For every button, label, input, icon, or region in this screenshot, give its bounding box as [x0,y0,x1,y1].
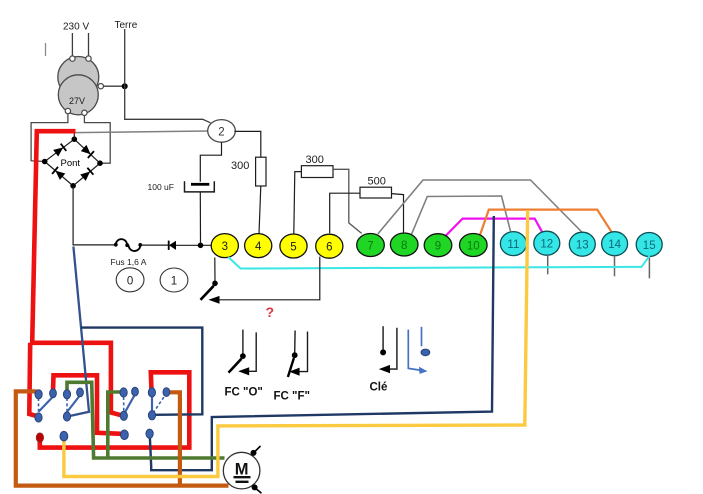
wire 230V lead right [88,33,90,56]
svg-text:6: 6 [326,242,332,254]
terminal 10 [460,234,488,257]
wire FC O right with arrow [240,332,256,371]
terminal 6 [316,234,343,258]
svg-text:?: ? [266,304,275,320]
svg-text:9: 9 [435,241,441,253]
switch FC F arm [288,358,294,377]
terminal 1 [160,268,188,292]
wire navy loop A to K4 common [81,328,202,415]
svg-text:11: 11 [507,239,519,251]
contact K2 arm [67,394,81,412]
terminal 3 [211,234,238,258]
wire green K2a to motor [67,382,225,458]
bridge Pont diamond [45,139,100,186]
wire navy DC- diagonal [69,247,90,417]
arrowhead selector [209,296,220,304]
stray mark [45,43,47,56]
node K4 bottom [148,411,155,420]
node K1 top-left [35,390,42,399]
diode D1 [168,241,170,250]
contact K4 dashed diagonal [153,394,166,413]
svg-text:10: 10 [467,241,480,253]
wire Cle blue stub [421,327,423,347]
wire capacitor to junction [199,192,201,244]
terminal right [98,84,103,89]
svg-text:100 uF: 100 uF [148,182,174,192]
node bridge left [42,159,48,165]
switch FC O left line [242,330,244,354]
transformer T1 secondary [58,75,98,115]
terminal top-left [70,56,75,61]
contact K1 dashed [38,398,40,413]
resistor R1 300 vertical [256,157,266,186]
node K4 top-right [163,388,170,397]
diode bridge top-right [81,145,94,158]
svg-text:500: 500 [368,176,386,188]
wire secondary to Terre [104,85,125,87]
terminal 0 [116,268,144,292]
arrowhead Cle blue [419,367,428,374]
terminal 9 [424,234,452,257]
contact K3 dashed [123,397,125,413]
wire red branch to contact K1a [29,343,37,416]
wire fuse to diode [140,244,168,246]
svg-text:1: 1 [171,276,177,288]
svg-text:FC "O": FC "O" [225,387,263,399]
svg-text:FC "F": FC "F" [274,391,310,403]
contact K3 arm [124,394,136,415]
wire coil2 to R1 [234,131,260,157]
wire R3 right to terminal 8 [392,194,404,233]
wire 230V lead left [71,33,73,56]
node Cle contact [380,349,386,355]
terminal bottom-left [65,108,70,113]
svg-text:Fus 1,6 A: Fus 1,6 A [111,257,147,267]
relay coil 2 [208,120,236,143]
wire navy loop B to top right [150,216,494,470]
node Terre junction [122,83,128,89]
node bridge right [97,160,103,166]
wire green K3a branch [108,392,122,457]
wire bridge top to relay coil 2 [75,131,208,133]
wire red K1a-NO to K3 common [53,375,122,434]
svg-text:300: 300 [231,160,249,172]
motor terminal upper [251,450,257,456]
svg-text:5: 5 [290,242,296,254]
wire orange left loop to motor [16,391,229,485]
diode bridge bottom-right [80,168,93,181]
wire Terre down and right to relay coil 2 [125,29,211,123]
terminal 13 [569,232,595,256]
contact K1 arm [39,395,55,412]
node K3 top-right [132,387,139,396]
terminal 12 [534,231,560,255]
arrowhead Cle [379,365,390,373]
node K1 bottom [35,413,42,422]
wire yellow K2 to top right [64,210,528,477]
terminal 7 [357,234,385,257]
svg-text:Clé: Clé [370,382,388,394]
node aux3 [121,430,129,440]
node Cle blue contact [421,349,430,356]
contact K2 dashed [66,398,68,412]
wire gray 7 to 13 [378,180,583,234]
switch arm [201,286,214,300]
terminal 5 [280,234,307,258]
wire R2 left to terminal 5 [294,172,302,235]
svg-text:4: 4 [255,241,262,253]
svg-text:3: 3 [222,241,228,253]
node K2 top-left [63,390,70,399]
arrowhead FC O [238,367,249,375]
switch FC F left line [294,331,296,354]
wire stub below 15 [648,258,650,279]
wire Cle right with arrow [382,328,397,369]
terminal 15 [636,233,662,257]
contact K4 solid vertical [151,394,153,414]
svg-text:M: M [235,461,249,479]
node K3 bottom [120,411,127,420]
svg-text:Pont: Pont [61,158,81,169]
terminal 14 [602,232,628,256]
svg-text:300: 300 [306,154,324,166]
node aux2 [60,431,68,441]
terminal 11 [500,232,526,256]
wire bridge bottom to fuse [73,186,115,245]
motor terminal lower [252,484,258,490]
svg-text:0: 0 [127,275,133,287]
node capacitor junction [198,243,204,249]
wire bridge top stub [73,132,75,139]
motor M1 [223,452,260,489]
wire R3 left to terminal 6 [330,193,360,233]
wire bottom-left lead into bridge frame [31,114,68,162]
wire coil2 to capacitor [200,142,221,182]
node switch pivot [212,281,218,287]
wire red bottom loop K4 [40,372,190,447]
capacitor C1 100uF [191,183,209,186]
wire 3 to switch [214,258,216,282]
switch Cle left line [382,326,384,350]
arrowhead FC F [289,368,299,376]
wire magenta 9 to 12 [445,219,543,237]
wire red DC+ from bridge top [32,131,121,415]
node aux1 red [36,433,43,442]
node K4 top-left [148,388,155,397]
node K2 top-right [77,388,84,397]
wire stub below 14 [614,256,616,277]
terminal bottom-right [82,110,87,115]
wire arrow line to 6 [210,257,320,300]
node bridge top [72,136,78,142]
wire bottom-right lead into bridge frame [84,115,110,163]
wire R2 right to terminal 7 [333,169,362,233]
switch Cle blue line bent with arrow [408,330,421,371]
wire stub below 12 [547,255,549,274]
wire FC F right with arrow [292,332,308,372]
wire R1 to terminal 4 [259,186,261,234]
resistor R3 500 horizontal [360,187,392,198]
svg-text:Terre: Terre [115,20,138,31]
terminal 4 [245,234,272,258]
transformer T1 primary [58,57,99,98]
node FC F pivot [292,352,298,358]
svg-text:13: 13 [576,240,589,252]
svg-text:7: 7 [367,241,373,253]
node FC O pivot [240,353,246,359]
resistor R2 300 horizontal [301,166,333,178]
terminal top-right [86,56,91,61]
wire gray 8 to 11 [411,196,511,236]
wire diode to terminal 3 [176,244,212,246]
svg-text:12: 12 [540,239,553,251]
diode bridge top-left [53,144,66,157]
node K1 top-right [50,389,57,398]
wire orange 10 to 14 [480,210,612,235]
node K3 top-left [120,388,127,397]
svg-text:15: 15 [643,240,656,252]
node bridge bottom [70,183,76,189]
svg-text:230 V: 230 V [63,22,89,33]
fuse F1 [116,239,127,245]
node aux4 [146,429,153,438]
switch FC O arm [229,359,242,373]
svg-text:8: 8 [401,240,407,252]
terminal 8 [390,233,418,256]
wire cyan bus 3 to 15 [228,256,649,269]
svg-text:2: 2 [218,126,224,138]
node K2 bottom [63,412,70,421]
diode bridge bottom-left [52,167,65,180]
svg-text:14: 14 [608,239,621,251]
wire orange K4 branch [168,392,180,484]
svg-text:27V: 27V [69,96,85,106]
